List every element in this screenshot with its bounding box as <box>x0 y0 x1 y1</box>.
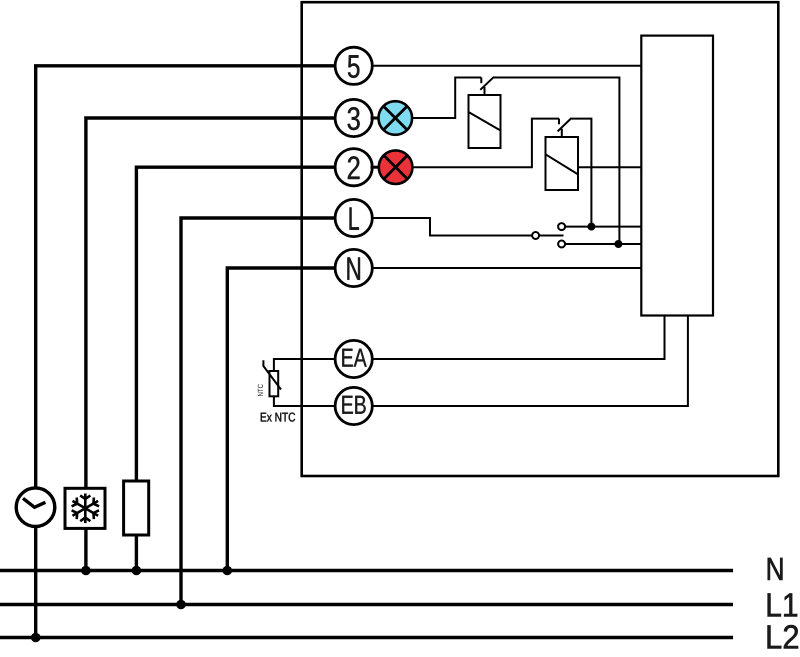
wire relay K2 output <box>572 119 592 227</box>
wire terminal 2 to resistor to N <box>136 167 335 570</box>
junction clock wire / L2 <box>31 633 41 643</box>
L1 bus line <box>0 603 733 606</box>
snowflake box <box>65 488 105 528</box>
wire terminal 5 to clock to L2 <box>36 66 335 638</box>
N bus line <box>0 569 733 572</box>
wire terminal 5 to module <box>372 65 641 67</box>
wire relay K1 output <box>494 78 620 245</box>
NTC thermistor body <box>270 371 279 396</box>
selector switch lower contact <box>558 241 565 248</box>
relay K1 fixed contact tick <box>480 78 482 84</box>
junction L wire / L1 <box>176 600 186 610</box>
wire lamp2 to relay K2 coil feed <box>412 119 559 168</box>
wire terminal 3 to lamp blue <box>371 117 381 120</box>
snowflake <box>72 494 99 524</box>
junction lower contact / relay K1 output <box>614 240 622 248</box>
lamp blue <box>379 101 413 135</box>
relay K2 coil <box>546 137 579 190</box>
junction snowflake wire / N <box>81 566 91 576</box>
wire terminal N to N bus <box>227 268 335 571</box>
wire terminal EA to module <box>372 316 664 360</box>
relay K2 fixed contact tick <box>558 119 560 125</box>
wire NTC to terminal EB <box>274 396 335 406</box>
relay K1 actuator stub <box>484 87 486 95</box>
electronic module block <box>641 36 713 316</box>
terminal EB <box>335 387 372 424</box>
NTC vertical label <box>258 384 263 396</box>
wire terminal L to selector switch <box>372 218 532 236</box>
terminal 3 <box>335 99 372 136</box>
terminal 5 <box>335 47 372 84</box>
Ex NTC label <box>261 413 295 422</box>
wire terminal EA to NTC <box>274 359 335 371</box>
selector switch blade <box>539 235 563 237</box>
terminal N <box>335 249 372 286</box>
wire relay K2 coil to module <box>578 166 641 168</box>
NTC thermistor strike line <box>263 360 281 389</box>
label N bus <box>768 558 783 580</box>
terminal 2 <box>335 149 372 186</box>
relay K2 switch blade <box>558 118 572 131</box>
wire terminal 2 to lamp red <box>371 166 381 169</box>
label L1 bus <box>768 593 797 616</box>
label L2 bus <box>768 625 798 648</box>
wire upper contact to module <box>565 226 641 228</box>
resistor heater <box>124 481 149 535</box>
wire terminal L to L1 <box>181 218 335 605</box>
terminal EA <box>335 340 372 377</box>
selector switch upper contact <box>558 223 565 230</box>
selector switch common contact <box>532 232 539 239</box>
junction resistor wire / N <box>132 566 142 576</box>
relay K1 switch blade <box>480 77 494 90</box>
wire lamp3 to relay K1 coil feed <box>412 78 481 119</box>
relay K1 coil <box>469 95 501 148</box>
wire terminal N to module <box>372 267 641 269</box>
junction upper contact / relay K2 output <box>587 223 595 231</box>
junction N wire / N bus <box>223 566 233 576</box>
relay K2 actuator stub <box>561 129 563 137</box>
wire lower contact to module <box>565 243 641 245</box>
L2 bus line <box>0 636 733 639</box>
lamp red <box>379 150 413 184</box>
clock symbol <box>16 488 55 527</box>
terminal L <box>335 199 372 236</box>
wire terminal 3 to snowflake to N <box>86 118 335 571</box>
wire terminal EB to module <box>372 316 688 407</box>
device outline box <box>302 2 779 476</box>
